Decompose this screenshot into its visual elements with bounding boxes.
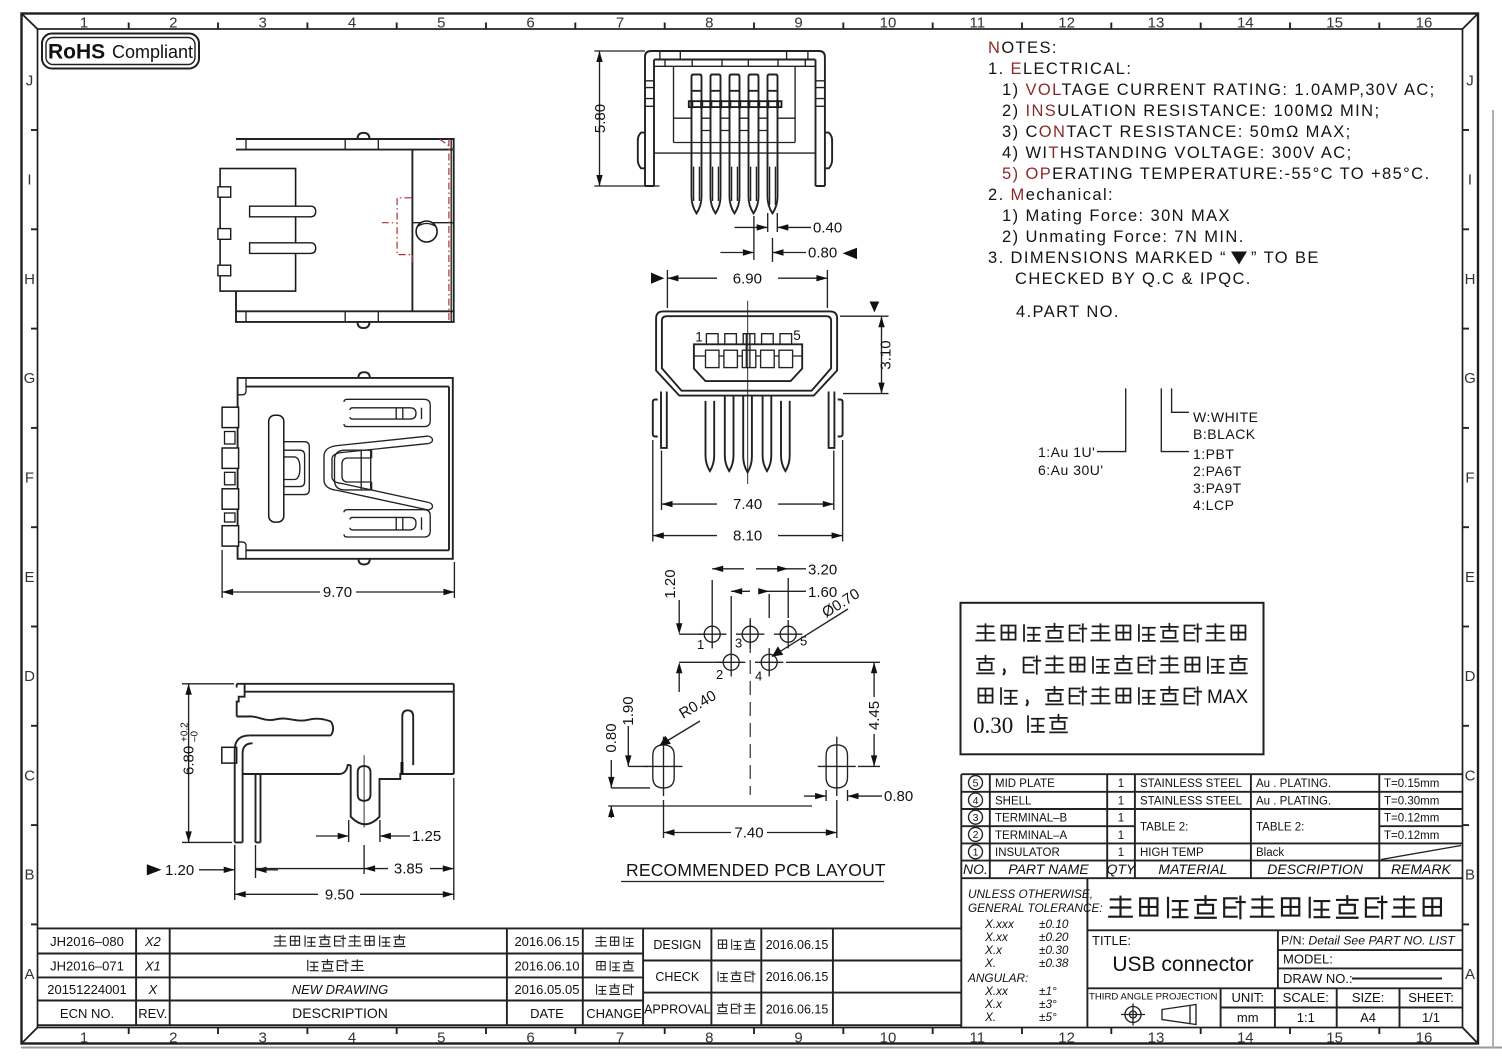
dim 5.80 <box>592 51 660 186</box>
svg-text:10: 10 <box>880 1030 897 1047</box>
left wall seam ticks <box>645 81 654 107</box>
svg-text:2) Unmating Force: 7N MIN.: 2) Unmating Force: 7N MIN. <box>1002 228 1245 246</box>
unit/scale/size/sheet <box>1231 990 1453 1025</box>
svg-text:4: 4 <box>973 795 979 807</box>
svg-text:8.10: 8.10 <box>733 528 762 545</box>
svg-text:REMARK: REMARK <box>1391 861 1452 877</box>
svg-text:0.40: 0.40 <box>813 219 842 236</box>
svg-text:0.80: 0.80 <box>603 723 620 752</box>
dim 1.25 <box>316 820 441 845</box>
svg-text:±0.30: ±0.30 <box>1039 943 1069 957</box>
svg-text:1: 1 <box>973 847 979 859</box>
svg-text:SHELL: SHELL <box>995 795 1032 807</box>
bend outer <box>235 735 250 842</box>
pin 4 <box>749 75 759 214</box>
svg-text:ANGULAR:: ANGULAR: <box>967 971 1028 985</box>
svg-text:I: I <box>27 172 31 189</box>
svg-text:A4: A4 <box>1360 1010 1376 1025</box>
sheet shadow lines <box>21 1047 1502 1049</box>
svg-text:USB connector: USB connector <box>1112 953 1253 976</box>
svg-text:13: 13 <box>1148 1030 1165 1047</box>
svg-text:16: 16 <box>1416 1030 1433 1047</box>
lower shield spring <box>344 510 430 537</box>
header row <box>963 861 1451 877</box>
svg-text:DESIGN: DESIGN <box>653 938 701 952</box>
svg-text:1) Mating Force: 30N MAX: 1) Mating Force: 30N MAX <box>1002 207 1231 225</box>
svg-text:3. DIMENSIONS MARKED “: 3. DIMENSIONS MARKED “ <box>988 249 1227 267</box>
title block grid <box>961 878 1462 1027</box>
svg-text:CHECKED BY Q.C & IPQC.: CHECKED BY Q.C & IPQC. <box>1015 270 1252 288</box>
svg-text:10: 10 <box>880 15 897 32</box>
front pins <box>706 401 715 471</box>
shell outer outline <box>645 51 825 186</box>
svg-text:4.45: 4.45 <box>866 701 883 730</box>
chevron contact arms <box>324 436 428 510</box>
svg-text:X.xx: X.xx <box>984 930 1009 944</box>
svg-text:NO.: NO. <box>963 861 988 877</box>
band stubs <box>246 139 378 322</box>
top weld bump <box>358 133 370 139</box>
dim 4.45 vertical <box>786 662 883 766</box>
dim 1.90 vertical <box>620 696 648 766</box>
inspection triangle glyph <box>1231 252 1247 265</box>
top edge lines <box>237 684 454 692</box>
svg-text:7: 7 <box>616 1030 624 1047</box>
svg-text:9.50: 9.50 <box>325 886 354 903</box>
svg-text:SCALE:: SCALE: <box>1283 990 1329 1005</box>
svg-text:SHEET:: SHEET: <box>1408 990 1454 1005</box>
svg-text:4.PART NO.: 4.PART NO. <box>1016 303 1120 321</box>
insulator opening <box>694 344 802 381</box>
svg-text:2: 2 <box>169 15 177 32</box>
svg-text:0.30: 0.30 <box>973 713 1013 738</box>
terminal slot bar lower <box>250 243 316 254</box>
svg-text:B: B <box>1465 867 1475 884</box>
dim 0.80 <box>720 245 857 262</box>
approver name row1 <box>718 940 726 948</box>
svg-text:2016.06.15: 2016.06.15 <box>766 1003 829 1017</box>
svg-text:B:BLACK: B:BLACK <box>1193 426 1256 442</box>
bottom band inner line <box>236 310 454 312</box>
svg-text:7: 7 <box>616 15 624 32</box>
svg-text:11: 11 <box>970 15 986 32</box>
svg-text:X.x: X.x <box>984 943 1003 957</box>
svg-text:6.80: 6.80 <box>181 746 198 775</box>
fork contact bar <box>269 415 284 522</box>
svg-text:E: E <box>1465 569 1475 586</box>
svg-text:MID PLATE: MID PLATE <box>995 778 1055 790</box>
material column <box>1140 778 1243 859</box>
svg-text:RECOMMENDED PCB LAYOUT: RECOMMENDED PCB LAYOUT <box>626 860 886 880</box>
svg-text:9: 9 <box>794 1030 802 1047</box>
upper shield spring <box>344 399 430 426</box>
dim 7.40 <box>662 451 834 514</box>
left end steps <box>237 684 245 717</box>
dim 8.10 <box>653 440 843 545</box>
svg-text:–0: –0 <box>190 730 201 742</box>
dim 7.40 pads <box>664 800 837 842</box>
shell inner walls <box>654 60 816 187</box>
svg-text:MATERIAL: MATERIAL <box>1158 861 1227 877</box>
svg-text:1: 1 <box>1118 778 1124 790</box>
svg-text:X2: X2 <box>144 934 162 949</box>
right edge inner line <box>450 139 452 322</box>
svg-text:W:WHITE: W:WHITE <box>1193 409 1258 425</box>
svg-text:6:Au 30U': 6:Au 30U' <box>1038 462 1104 478</box>
fork c-channel <box>284 442 310 495</box>
svg-text:3: 3 <box>259 15 267 32</box>
svg-text:1: 1 <box>695 330 703 345</box>
slot row mid line <box>694 355 802 357</box>
svg-text:X: X <box>147 982 158 997</box>
fork middle finger <box>284 457 300 480</box>
bend inner / leg1 <box>235 743 253 842</box>
material table <box>961 774 1462 878</box>
svg-text:4) WITHSTANDING VOLTAGE: 300V: 4) WITHSTANDING VOLTAGE: 300V AC; <box>1002 144 1353 162</box>
view C : top view (left upper) <box>218 133 454 328</box>
svg-text:TERMINAL–A: TERMINAL–A <box>995 830 1068 842</box>
svg-text:5: 5 <box>973 777 979 789</box>
svg-text:5.80: 5.80 <box>592 104 609 133</box>
slot dark mark <box>401 762 404 774</box>
svg-text:4: 4 <box>755 669 762 684</box>
svg-text:2) INSULATION RESISTANCE: 100M: 2) INSULATION RESISTANCE: 100MΩ MIN; <box>1002 102 1380 120</box>
svg-text:X.: X. <box>984 1010 996 1024</box>
svg-text:F: F <box>25 470 34 487</box>
svg-text:1.20: 1.20 <box>165 862 194 879</box>
top band inner line <box>246 387 449 551</box>
top weld bump <box>358 372 369 378</box>
svg-text:1: 1 <box>1118 813 1124 825</box>
svg-text:3: 3 <box>735 636 742 651</box>
bottom weld bump <box>358 559 369 565</box>
right edge <box>453 684 455 774</box>
dim 1.20 vertical <box>662 569 721 692</box>
top band inner line <box>236 149 454 151</box>
pcb slot vertical <box>402 710 413 765</box>
svg-text:CHECK: CHECK <box>655 970 699 984</box>
qty column <box>1118 778 1124 859</box>
svg-text:1: 1 <box>80 15 88 32</box>
svg-text:PART NAME: PART NAME <box>1008 861 1089 877</box>
lower contact slots <box>706 350 793 367</box>
svg-text:1.25: 1.25 <box>412 828 441 845</box>
hole 2 <box>717 648 745 676</box>
svg-text:7.40: 7.40 <box>734 825 763 842</box>
svg-text:TABLE 2:: TABLE 2: <box>1256 822 1304 834</box>
left latch bracket <box>653 400 658 437</box>
svg-text:D: D <box>24 668 35 685</box>
svg-text:2: 2 <box>169 1030 177 1047</box>
svg-text:4:LCP: 4:LCP <box>1193 497 1234 513</box>
pin 1 <box>692 75 702 214</box>
svg-text:I: I <box>1468 172 1472 189</box>
svg-text:B: B <box>24 867 34 884</box>
checked marker triangle <box>843 248 857 259</box>
right leg <box>829 392 835 448</box>
svg-text:8: 8 <box>705 15 713 32</box>
svg-text:2. Mechanical:: 2. Mechanical: <box>988 186 1114 204</box>
svg-text:±0.38: ±0.38 <box>1039 956 1069 970</box>
svg-text:X.xx: X.xx <box>984 984 1009 998</box>
terminal slot bar upper <box>250 206 316 217</box>
svg-text:” TO BE: ” TO BE <box>1251 249 1320 267</box>
svg-text:GENERAL TOLERANCE:: GENERAL TOLERANCE: <box>968 901 1103 915</box>
part name column <box>995 778 1068 859</box>
svg-text:±0.10: ±0.10 <box>1039 917 1069 931</box>
view A : back view with pins (top middle) <box>592 51 857 262</box>
svg-text:2:PA6T: 2:PA6T <box>1193 463 1242 479</box>
body outline <box>236 139 454 322</box>
svg-text:T=0.30mm: T=0.30mm <box>1384 795 1439 807</box>
svg-text:1.20: 1.20 <box>662 569 679 598</box>
right mounting tab <box>825 133 832 169</box>
right latch bracket <box>838 400 843 437</box>
svg-text:1.90: 1.90 <box>620 696 637 725</box>
svg-text:3.10: 3.10 <box>878 340 895 369</box>
svg-text:JH2016–080: JH2016–080 <box>50 934 124 949</box>
terminal strip cap <box>250 722 333 736</box>
svg-text:Black: Black <box>1256 847 1284 859</box>
svg-text:JH2016–071: JH2016–071 <box>50 959 124 974</box>
circled item numbers <box>969 776 983 859</box>
comb gap squares <box>225 432 236 523</box>
view E : side view (left bottom) <box>147 684 454 904</box>
svg-text:8: 8 <box>705 1030 713 1047</box>
table grid <box>961 774 1462 878</box>
revision table grid <box>38 928 961 1025</box>
leader R0.40 <box>660 687 720 745</box>
break wavy line <box>237 716 331 721</box>
mating comb teeth <box>222 407 239 546</box>
svg-text:1: 1 <box>1118 830 1124 842</box>
dim 1.60 <box>731 584 837 648</box>
solder collar <box>222 747 237 763</box>
svg-text:1/1: 1/1 <box>1422 1010 1440 1025</box>
leg bottom caps <box>645 185 825 187</box>
svg-text:TITLE:: TITLE: <box>1092 933 1131 948</box>
block edge notches <box>218 187 231 276</box>
left mounting tab <box>638 133 645 169</box>
svg-text:NEW DRAWING: NEW DRAWING <box>292 982 389 997</box>
svg-text:H: H <box>1465 271 1476 288</box>
checked marker above right <box>870 302 880 313</box>
center line <box>747 301 749 484</box>
svg-text:QTY: QTY <box>1107 861 1137 877</box>
leg 2 <box>256 774 261 842</box>
svg-text:12: 12 <box>1058 15 1075 32</box>
svg-text:1: 1 <box>80 1030 88 1047</box>
svg-text:DATE: DATE <box>530 1006 564 1021</box>
svg-text:4: 4 <box>348 15 356 32</box>
svg-text:6.90: 6.90 <box>733 270 762 287</box>
svg-text:C: C <box>1465 767 1476 784</box>
view D : bottom view (left middle) <box>222 372 454 601</box>
top edge stubs <box>660 51 808 60</box>
svg-text:2: 2 <box>716 667 723 682</box>
svg-text:DESCRIPTION: DESCRIPTION <box>292 1005 388 1021</box>
revision table <box>38 928 961 1025</box>
right wall seam ticks <box>816 81 825 107</box>
svg-text:9: 9 <box>794 15 802 32</box>
svg-text:1:PBT: 1:PBT <box>1193 446 1234 462</box>
svg-text:14: 14 <box>1237 15 1254 32</box>
svg-text:X1: X1 <box>144 959 161 974</box>
svg-text:1:Au 1U': 1:Au 1U' <box>1038 444 1095 460</box>
cavity mid line <box>674 117 796 119</box>
svg-text:UNLESS OTHERWISE,: UNLESS OTHERWISE, <box>968 887 1093 901</box>
remark diagonal slash <box>1381 846 1461 860</box>
dim 6.90 <box>651 270 827 308</box>
left slot pad <box>645 737 683 796</box>
svg-text:THIRD ANGLE PROJECTION: THIRD ANGLE PROJECTION <box>1089 992 1218 1003</box>
svg-text:NOTES:: NOTES: <box>988 39 1058 57</box>
svg-text:1) VOLTAGE CURRENT RATING: 1.0: 1) VOLTAGE CURRENT RATING: 1.0AMP,30V AC… <box>1002 81 1436 99</box>
svg-text:11: 11 <box>970 1030 986 1047</box>
svg-text:2016.06.15: 2016.06.15 <box>766 970 829 984</box>
inter-pin boxes <box>702 118 768 130</box>
part number tree <box>1038 388 1258 513</box>
svg-text:5: 5 <box>437 15 445 32</box>
svg-text:12: 12 <box>1058 1030 1075 1047</box>
svg-text:2016.06.10: 2016.06.10 <box>514 959 579 974</box>
svg-text:MAX: MAX <box>1207 687 1249 708</box>
svg-text:T=0.12mm: T=0.12mm <box>1384 813 1439 825</box>
svg-text:2016.06.15: 2016.06.15 <box>514 934 579 949</box>
pin 3 <box>730 75 740 214</box>
red hidden lines <box>382 139 454 322</box>
interior partition line <box>411 150 413 312</box>
svg-text:15: 15 <box>1326 1030 1343 1047</box>
design/check/approval <box>644 938 828 1017</box>
svg-text:STAINLESS STEEL: STAINLESS STEEL <box>1140 795 1243 807</box>
svg-text:13: 13 <box>1148 15 1165 32</box>
svg-text:6: 6 <box>526 15 534 32</box>
company name glyphs <box>1109 897 1132 917</box>
svg-text:E: E <box>24 569 34 586</box>
leader 0.70 dia <box>772 585 863 656</box>
chinese terminal-position note text (fake glyph strokes) <box>976 624 994 640</box>
svg-text:16: 16 <box>1416 15 1433 32</box>
top-left corner hook <box>238 378 246 559</box>
svg-text:5: 5 <box>793 328 801 343</box>
svg-text:3.20: 3.20 <box>808 562 837 579</box>
hanging tabs below top <box>665 60 805 67</box>
svg-text:±1°: ±1° <box>1039 984 1057 998</box>
svg-text:C: C <box>24 767 35 784</box>
pin 5 <box>768 75 778 214</box>
svg-text:1: 1 <box>1118 847 1124 859</box>
svg-text:3: 3 <box>973 812 979 824</box>
oval center line <box>363 755 365 827</box>
svg-text:2016.05.05: 2016.05.05 <box>514 982 579 997</box>
svg-text:CHANGE: CHANGE <box>586 1006 642 1021</box>
center contact horseshoe <box>335 450 372 490</box>
dim 3.20 <box>712 562 837 621</box>
center pin section <box>746 334 750 368</box>
svg-text:F: F <box>1465 470 1474 487</box>
hole 1 <box>698 620 726 648</box>
svg-text:1: 1 <box>1118 795 1124 807</box>
svg-text:J: J <box>1466 72 1474 89</box>
svg-text:H: H <box>24 271 35 288</box>
view B : front view (middle) <box>651 270 895 545</box>
date column <box>514 934 579 1021</box>
ecn number column <box>47 934 127 1021</box>
dim 6.80 +0.2/-0 <box>180 684 235 843</box>
svg-text:4: 4 <box>348 1030 356 1047</box>
svg-text:6: 6 <box>526 1030 534 1047</box>
svg-text:TERMINAL–B: TERMINAL–B <box>995 813 1068 825</box>
change-by name row1 <box>596 936 607 946</box>
svg-text:Au . PLATING.: Au . PLATING. <box>1256 795 1331 807</box>
svg-text:APPROVAL: APPROVAL <box>644 1003 711 1017</box>
svg-text:G: G <box>24 370 36 387</box>
shield fold line <box>412 222 453 224</box>
pin 2 <box>711 75 721 214</box>
svg-text:3: 3 <box>259 1030 267 1047</box>
hole 3 <box>736 620 764 648</box>
anchor circle <box>416 221 437 242</box>
tree line insulator material <box>1161 388 1189 451</box>
remark column <box>1384 778 1439 842</box>
rivet oval <box>358 766 371 801</box>
chinese note box <box>961 603 1264 755</box>
svg-text:A: A <box>24 966 34 983</box>
left leg <box>661 392 667 448</box>
bottom weld bump <box>358 322 370 328</box>
tree line plating <box>1097 388 1126 451</box>
svg-text:T=0.12mm: T=0.12mm <box>1384 830 1439 842</box>
svg-text:X.xxx: X.xxx <box>984 917 1015 931</box>
svg-text:REV.: REV. <box>138 1006 167 1021</box>
svg-text:ECN NO.: ECN NO. <box>60 1006 114 1021</box>
svg-text:P/N: Detail See PART NO. LIST: P/N: Detail See PART NO. LIST <box>1281 934 1456 948</box>
svg-text:5) OPERATING TEMPERATURE:-55°C: 5) OPERATING TEMPERATURE:-55°C TO +85°C. <box>1002 165 1430 183</box>
title block <box>961 878 1462 1027</box>
svg-text:UNIT:: UNIT: <box>1231 990 1264 1005</box>
body bottom edge <box>243 765 454 824</box>
approver name row2 <box>718 972 727 981</box>
company name (fake cjk) <box>1109 896 1441 918</box>
shell outer octagon <box>656 311 837 395</box>
svg-text:3) CONTACT RESISTANCE: 50mΩ MA: 3) CONTACT RESISTANCE: 50mΩ MAX; <box>1002 123 1352 141</box>
svg-text:2: 2 <box>973 829 979 841</box>
svg-text:3:PA9T: 3:PA9T <box>1193 480 1242 496</box>
svg-text:3.85: 3.85 <box>394 861 423 878</box>
svg-text:20151224001: 20151224001 <box>47 982 127 997</box>
dim 9.70 <box>222 550 454 601</box>
notes <box>988 39 1436 321</box>
svg-text:MODEL:: MODEL: <box>1283 952 1333 967</box>
svg-text:INSULATOR: INSULATOR <box>995 847 1060 859</box>
svg-text:Au . PLATING.: Au . PLATING. <box>1256 778 1331 790</box>
dim 9.50 <box>235 778 454 903</box>
svg-text:TABLE 2:: TABLE 2: <box>1140 822 1188 834</box>
svg-text:5: 5 <box>437 1030 445 1047</box>
svg-text:9.70: 9.70 <box>323 584 352 601</box>
right slot pad <box>818 737 856 796</box>
svg-text:1:1: 1:1 <box>1297 1010 1315 1025</box>
svg-text:G: G <box>1464 370 1476 387</box>
revision description chinese row2 <box>308 960 318 970</box>
svg-text:X.: X. <box>984 956 996 970</box>
svg-text:2016.06.15: 2016.06.15 <box>766 938 829 952</box>
dim 0.40 <box>735 213 843 262</box>
mating face block <box>220 169 296 292</box>
svg-text:mm: mm <box>1237 1010 1259 1025</box>
svg-text:7.40: 7.40 <box>733 496 762 513</box>
